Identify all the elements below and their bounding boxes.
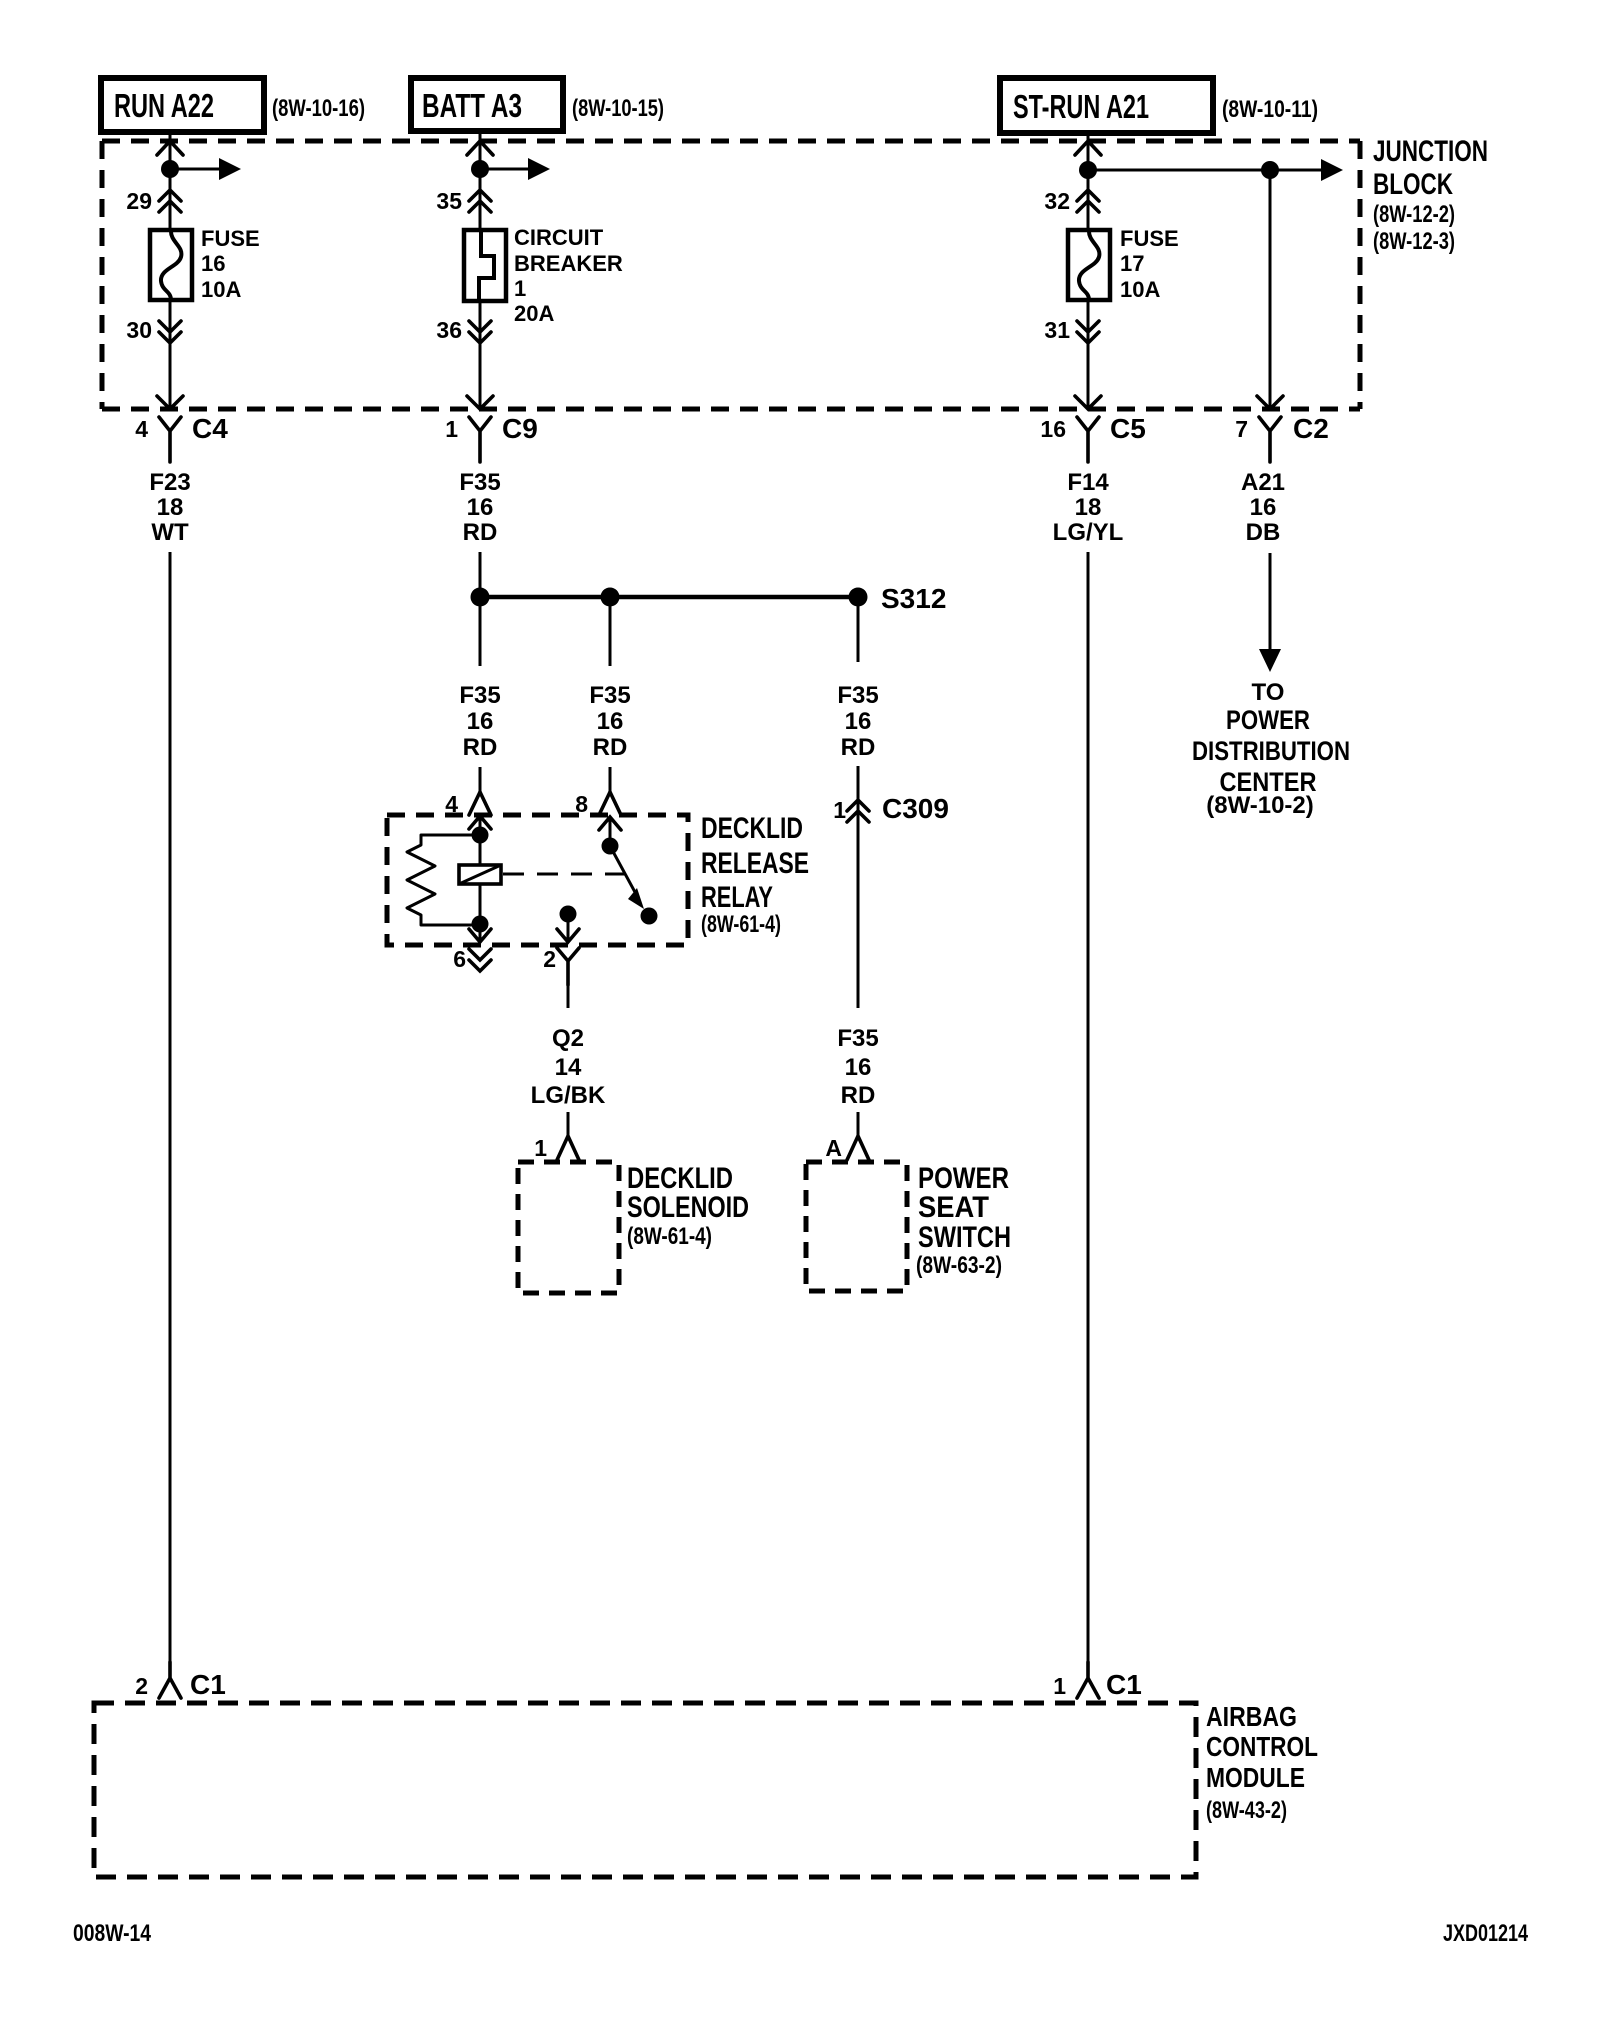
svg-text:BATT A3: BATT A3 — [422, 87, 522, 124]
svg-text:JXD01214: JXD01214 — [1443, 1920, 1528, 1947]
junction block dashed border — [102, 141, 1360, 409]
wire F14 down to airbag module (col 1088) — [1087, 552, 1090, 1662]
node contact pivot — [602, 838, 619, 855]
wire label F35 16 RD (branch 2) — [589, 682, 630, 761]
svg-text:1: 1 — [833, 797, 846, 823]
svg-text:RD: RD — [841, 734, 876, 761]
svg-text:35: 35 — [436, 188, 462, 214]
wire fuse17 to C5 — [1087, 300, 1090, 407]
svg-text:(8W-10-16): (8W-10-16) — [272, 95, 365, 122]
svg-text:(8W-63-2): (8W-63-2) — [916, 1252, 1002, 1279]
wire to relay pin 4 fork — [479, 767, 482, 792]
svg-text:CONTROL: CONTROL — [1206, 1731, 1318, 1762]
wire label F35 16 RD (C9) — [459, 469, 500, 546]
svg-text:2: 2 — [543, 946, 556, 972]
relay pin 2 exit arrow — [557, 929, 579, 942]
svg-text:30: 30 — [126, 317, 152, 343]
svg-text:MODULE: MODULE — [1206, 1762, 1305, 1793]
svg-text:DECKLID: DECKLID — [701, 812, 803, 845]
svg-text:7: 7 — [1235, 416, 1248, 442]
label TO POWER DISTRIBUTION CENTER — [1192, 679, 1350, 819]
wire to power seat switch — [857, 1112, 860, 1136]
svg-text:LG/BK: LG/BK — [531, 1082, 606, 1109]
svg-text:ST-RUN A21: ST-RUN A21 — [1013, 88, 1149, 125]
wire S312 to relay pin 8 — [609, 597, 612, 666]
wire coil to pin 6 — [479, 884, 482, 943]
wire relay pin 2 to solenoid — [567, 985, 570, 1008]
svg-text:18: 18 — [157, 494, 184, 521]
wire through C309 down to power seat switch — [857, 766, 860, 1008]
svg-text:(8W-10-11): (8W-10-11) — [1222, 96, 1318, 123]
svg-text:RD: RD — [463, 519, 498, 546]
svg-text:16: 16 — [845, 1054, 872, 1081]
svg-text:4: 4 — [135, 416, 148, 442]
svg-text:C1: C1 — [190, 1669, 226, 1700]
svg-text:(8W-61-4): (8W-61-4) — [627, 1223, 712, 1250]
power seat switch label — [916, 1162, 1011, 1279]
svg-text:LG/YL: LG/YL — [1053, 519, 1124, 546]
wire S312 to relay pin 4 — [479, 597, 482, 666]
svg-text:C2: C2 — [1293, 413, 1329, 444]
airbag module connector C1 pin 1 fork — [1053, 1662, 1142, 1700]
svg-text:(8W-43-2): (8W-43-2) — [1206, 1797, 1287, 1824]
pin 36 connector chevrons — [436, 317, 491, 343]
relay pin 8 entry arrow — [599, 817, 621, 830]
airbag module connector C1 pin 2 fork — [135, 1662, 226, 1700]
svg-text:DB: DB — [1246, 519, 1281, 546]
svg-text:SWITCH: SWITCH — [918, 1221, 1011, 1254]
svg-text:6: 6 — [453, 946, 466, 972]
svg-text:SEAT: SEAT — [918, 1191, 989, 1224]
connector C4 (pin 4) — [135, 396, 228, 462]
svg-text:JUNCTION: JUNCTION — [1373, 135, 1488, 168]
relay label — [701, 812, 809, 938]
airbag control module label — [1206, 1701, 1318, 1824]
svg-text:(8W-12-3): (8W-12-3) — [1373, 228, 1455, 255]
wire C2 drop inside junction block (col 1270) — [1269, 170, 1272, 407]
svg-text:DISTRIBUTION: DISTRIBUTION — [1192, 736, 1350, 766]
svg-text:C9: C9 — [502, 413, 538, 444]
relay pin 4 fork — [445, 791, 491, 817]
wire label Q2 14 LG/BK — [531, 1025, 606, 1109]
wire fuse16 to C4 — [169, 300, 172, 407]
node at RUN A22 branch — [161, 160, 179, 178]
arrow to power distribution center — [1259, 553, 1281, 672]
svg-text:A: A — [825, 1135, 842, 1161]
svg-text:16: 16 — [845, 708, 872, 735]
svg-text:TO: TO — [1252, 679, 1285, 706]
airbag control module box — [94, 1703, 1196, 1877]
pin 29 connector chevrons — [126, 188, 181, 214]
svg-text:FUSE: FUSE — [1120, 226, 1179, 251]
splice node S312 middle — [601, 588, 620, 607]
mechanical link (dashed) — [503, 873, 628, 876]
svg-text:14: 14 — [555, 1054, 582, 1081]
svg-text:F35: F35 — [589, 682, 630, 709]
svg-text:F35: F35 — [459, 469, 500, 496]
relay coil — [459, 865, 501, 884]
node contact end — [641, 908, 658, 925]
wire pin 2 to box edge — [567, 914, 570, 943]
splice S312 bus wire — [480, 595, 858, 600]
wire RUN A22 feed (col 170) — [169, 131, 172, 230]
arrow up into RUN A22 — [157, 141, 183, 155]
svg-text:Q2: Q2 — [552, 1025, 584, 1052]
wire label A21 16 DB — [1241, 469, 1285, 546]
resistor (relay) — [407, 835, 480, 925]
pin 35 connector chevrons — [436, 188, 491, 214]
svg-text:AIRBAG: AIRBAG — [1206, 1701, 1297, 1732]
fuse 16 10A — [150, 226, 260, 302]
decklid solenoid pin 1 fork — [534, 1135, 579, 1161]
switch blade — [610, 846, 644, 909]
wire label F14 18 LG/YL — [1053, 469, 1124, 546]
svg-text:A21: A21 — [1241, 469, 1285, 496]
decklid solenoid box — [518, 1162, 619, 1293]
svg-text:16: 16 — [467, 708, 494, 735]
svg-text:(8W-10-15): (8W-10-15) — [572, 95, 664, 122]
pin 32 connector chevrons — [1044, 188, 1099, 214]
svg-text:16: 16 — [1250, 494, 1277, 521]
node coil top — [472, 827, 489, 844]
svg-text:C5: C5 — [1110, 413, 1146, 444]
svg-text:1: 1 — [514, 276, 526, 301]
svg-text:29: 29 — [126, 188, 152, 214]
in-line connector C309 (pin 1) — [833, 793, 949, 824]
relay pin 6 exit arrow — [469, 929, 491, 942]
wire label F35 16 RD (seat branch) — [837, 1025, 878, 1109]
relay pin 6 connector chevrons — [453, 946, 491, 972]
relay pin 2 connector fork — [543, 946, 579, 985]
svg-text:FUSE: FUSE — [201, 226, 260, 251]
feed box ST-RUN A21 — [1000, 78, 1213, 133]
svg-text:RELEASE: RELEASE — [701, 847, 809, 880]
svg-text:10A: 10A — [1120, 277, 1160, 302]
wire F23 down to airbag module (col 170) — [169, 552, 172, 1662]
svg-text:10A: 10A — [201, 277, 241, 302]
svg-text:BLOCK: BLOCK — [1373, 168, 1453, 201]
svg-text:(8W-12-2): (8W-12-2) — [1373, 201, 1455, 228]
node at BATT A3 branch — [471, 160, 489, 178]
svg-text:008W-14: 008W-14 — [73, 1920, 152, 1947]
connector C9 (pin 1) — [445, 396, 538, 462]
svg-text:1: 1 — [445, 416, 458, 442]
svg-text:1: 1 — [534, 1135, 547, 1161]
branch arrow right from BATT A3 — [480, 158, 550, 180]
svg-text:C1: C1 — [1106, 1669, 1142, 1700]
svg-text:RELAY: RELAY — [701, 881, 773, 914]
svg-text:16: 16 — [201, 251, 225, 276]
junction block label — [1373, 135, 1488, 255]
svg-text:1: 1 — [1053, 1673, 1066, 1699]
wire BATT A3 feed (col 480) — [479, 131, 482, 230]
feed box RUN A22 — [101, 78, 264, 132]
svg-text:F14: F14 — [1067, 469, 1109, 496]
svg-text:32: 32 — [1044, 188, 1070, 214]
svg-text:POWER: POWER — [1226, 705, 1310, 735]
svg-text:SOLENOID: SOLENOID — [627, 1191, 749, 1224]
power seat switch pin A fork — [825, 1135, 869, 1161]
svg-text:18: 18 — [1075, 494, 1102, 521]
svg-text:17: 17 — [1120, 251, 1144, 276]
wire breaker to C9 — [479, 301, 482, 407]
wire label F35 16 RD (branch 1) — [459, 682, 500, 761]
svg-text:C4: C4 — [192, 413, 228, 444]
arrow up into ST-RUN A21 — [1075, 141, 1101, 155]
wire label F35 16 RD (branch 3) — [837, 682, 878, 761]
feed box BATT A3 — [411, 78, 563, 131]
svg-text:WT: WT — [151, 519, 189, 546]
wire pin 8 to contact — [609, 817, 612, 846]
branch arrow right from RUN A22 — [170, 158, 241, 180]
svg-text:(8W-61-4): (8W-61-4) — [701, 911, 781, 938]
splice node S312 right — [849, 588, 868, 607]
arrow up into BATT A3 — [467, 141, 493, 155]
branch wire right to arrow and C2 drop — [1088, 159, 1343, 181]
circuit breaker 1 20A — [464, 225, 623, 326]
wire S312 to C309 — [857, 597, 860, 662]
wire label F23 18 WT — [149, 469, 190, 546]
power seat switch box — [806, 1162, 907, 1291]
svg-text:20A: 20A — [514, 301, 554, 326]
node coil bottom — [472, 916, 489, 933]
svg-text:BREAKER: BREAKER — [514, 251, 623, 276]
svg-text:C309: C309 — [882, 793, 949, 824]
svg-text:(8W-10-2): (8W-10-2) — [1206, 792, 1314, 819]
svg-text:S312: S312 — [881, 583, 946, 614]
node at C2 drop — [1261, 161, 1279, 179]
svg-text:36: 36 — [436, 317, 462, 343]
svg-text:2: 2 — [135, 1673, 148, 1699]
pin 30 connector chevrons — [126, 317, 181, 343]
wire ST-RUN A21 feed (col 1088) — [1087, 133, 1090, 230]
svg-text:16: 16 — [467, 494, 494, 521]
svg-text:RD: RD — [463, 734, 498, 761]
decklid release relay box — [387, 815, 688, 945]
relay pin 8 fork — [575, 791, 621, 817]
wire C9 to splice S312 — [479, 552, 482, 597]
splice node S312 left — [471, 588, 490, 607]
node at ST-RUN A21 branch — [1079, 161, 1097, 179]
wire to decklid solenoid — [567, 1112, 570, 1136]
svg-text:31: 31 — [1044, 317, 1070, 343]
relay coil feed wire — [479, 816, 482, 865]
wire to relay pin 8 fork — [609, 767, 612, 792]
svg-text:F35: F35 — [459, 682, 500, 709]
svg-text:RD: RD — [593, 734, 628, 761]
svg-text:16: 16 — [1040, 416, 1066, 442]
pin 31 connector chevrons — [1044, 317, 1099, 343]
decklid solenoid label — [627, 1162, 749, 1250]
connector C2 (pin 7) — [1235, 396, 1329, 462]
connector C5 (pin 16) — [1040, 396, 1145, 462]
svg-text:F35: F35 — [837, 682, 878, 709]
svg-text:F35: F35 — [837, 1025, 878, 1052]
svg-text:RD: RD — [841, 1082, 876, 1109]
node pin 2 — [560, 906, 577, 923]
svg-text:F23: F23 — [149, 469, 190, 496]
svg-text:16: 16 — [597, 708, 624, 735]
svg-text:CIRCUIT: CIRCUIT — [514, 225, 604, 250]
relay pin 4 entry arrow — [469, 816, 491, 829]
fuse 17 10A — [1068, 226, 1179, 302]
svg-text:RUN A22: RUN A22 — [114, 87, 214, 124]
